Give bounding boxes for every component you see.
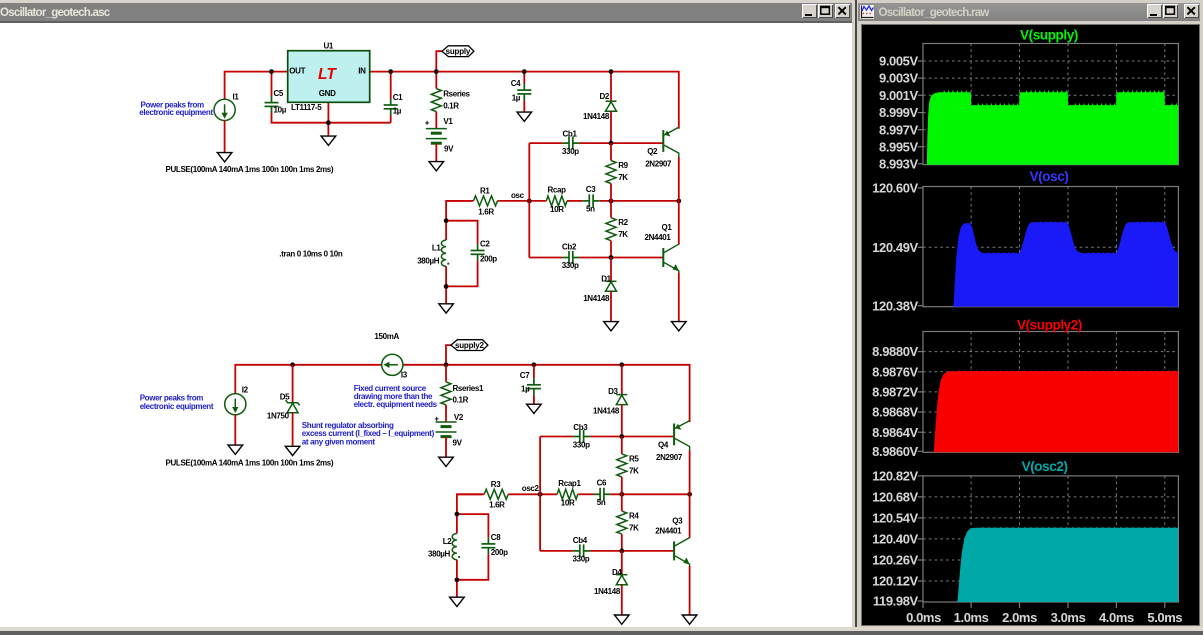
svg-text:R4: R4 (629, 511, 639, 520)
wire Q3 emitter down (689, 566, 691, 615)
wire V1 to gnd (435, 143, 437, 161)
plot pane V(osc) grid (923, 186, 1178, 306)
junction U1 gnd (326, 120, 331, 125)
svg-text:.tran 0 10ms 0 10n: .tran 0 10ms 0 10n (279, 249, 343, 258)
wire Cb3 line b (590, 435, 673, 437)
svg-text:Rseries: Rseries (443, 89, 470, 98)
minimize button (802, 4, 817, 18)
capacitor Cb3 (573, 430, 590, 443)
trace V(osc) (954, 220, 1179, 306)
capacitor C5 (265, 96, 279, 113)
wire C3 to rail (600, 200, 679, 202)
svg-text:120.54V: 120.54V (872, 510, 918, 525)
capacitor C7 (527, 378, 541, 395)
svg-text:R9: R9 (618, 161, 628, 170)
capacitor C1 (384, 98, 398, 115)
wire C7 bottom (533, 395, 535, 404)
svg-text:200p: 200p (491, 548, 508, 557)
svg-text:120.82V: 120.82V (872, 468, 918, 483)
svg-text:5n: 5n (597, 498, 606, 507)
diode D4 (616, 574, 627, 584)
wire Rcap to C3 (568, 200, 583, 202)
svg-text:V(supply): V(supply) (1020, 27, 1078, 42)
trace V(osc2) (957, 526, 1178, 601)
junction osc-rail (527, 198, 532, 203)
svg-text:C6: C6 (597, 478, 607, 487)
svg-text:1N4148: 1N4148 (594, 587, 621, 596)
svg-text:1.0ms: 1.0ms (954, 609, 989, 624)
svg-text:150mA: 150mA (374, 332, 399, 341)
wire D3 top (621, 364, 623, 394)
junction C5 top rail (269, 69, 274, 74)
junction C1 top rail (388, 69, 393, 74)
svg-text:7K: 7K (629, 466, 639, 475)
svg-text:C3: C3 (586, 185, 596, 194)
svg-text:380µH: 380µH (417, 256, 440, 265)
ground Q1 emitter (672, 321, 687, 330)
svg-text:electronic equipment: electronic equipment (139, 108, 213, 117)
svg-text:R1: R1 (480, 186, 490, 195)
svg-text:0.1R: 0.1R (443, 101, 459, 110)
inductor L2 (452, 533, 460, 559)
maximize button (1163, 4, 1178, 18)
ground V2 (439, 457, 454, 466)
diode D1 (606, 281, 617, 291)
op-amp U1 LT1117-5 body (288, 50, 370, 102)
trace V(supply2) (934, 370, 1178, 452)
svg-text:1µ: 1µ (521, 384, 530, 393)
svg-text:PULSE(100mA 140mA 1ms 100n 100: PULSE(100mA 140mA 1ms 100n 100n 1ms 2ms) (166, 458, 334, 467)
svg-text:7K: 7K (618, 173, 628, 182)
svg-text:U1: U1 (324, 41, 334, 50)
svg-text:Cb4: Cb4 (573, 536, 588, 545)
ground tank (450, 597, 465, 606)
svg-text:8.9868V: 8.9868V (872, 404, 918, 419)
window icon (859, 4, 875, 20)
junction osc2-mid (619, 492, 624, 497)
capacitor C8 (481, 537, 495, 554)
axis labels V(osc2) (872, 468, 923, 608)
svg-text:Q2: Q2 (647, 147, 658, 156)
wire D5 bottom (292, 412, 294, 446)
svg-text:C1: C1 (393, 93, 403, 102)
svg-text:D4: D4 (612, 568, 622, 577)
svg-text:I3: I3 (401, 370, 408, 379)
svg-text:electr. equipment needs: electr. equipment needs (354, 400, 438, 409)
svg-text:PULSE(100mA 140mA 1ms 100n 100: PULSE(100mA 140mA 1ms 100n 100n 1ms 2ms) (166, 165, 334, 174)
svg-text:119.98V: 119.98V (873, 593, 919, 608)
wire Q1 emitter down (678, 272, 680, 321)
wire I2 bottom (234, 414, 236, 444)
svg-text:1.6R: 1.6R (489, 500, 505, 509)
x axis labels (906, 602, 1182, 625)
resistor R4 (617, 494, 627, 551)
ground D4 (615, 615, 630, 624)
close button (835, 4, 850, 18)
svg-text:GND: GND (319, 89, 336, 98)
svg-text:8.995V: 8.995V (879, 139, 919, 154)
svg-text:2N4401: 2N4401 (645, 233, 672, 242)
svg-text:0.0ms: 0.0ms (906, 609, 941, 624)
svg-text:Cb1: Cb1 (563, 129, 578, 138)
svg-text:osc: osc (511, 191, 525, 200)
svg-text:380µH: 380µH (428, 549, 451, 558)
svg-text:I1: I1 (233, 92, 240, 101)
wire tank top (457, 494, 483, 533)
wire cross rail (539, 436, 541, 550)
junction Cb1-mid (609, 140, 614, 145)
svg-text:2.0ms: 2.0ms (1002, 609, 1037, 624)
junction Cb3-mid (619, 434, 624, 439)
svg-text:120.12V: 120.12V (872, 573, 918, 588)
wire tank top (446, 201, 472, 240)
wire osc2 mid (510, 493, 556, 495)
svg-text:5n: 5n (586, 204, 595, 213)
resistor R5 (617, 436, 627, 494)
svg-text:D5: D5 (280, 392, 290, 401)
svg-text:Q3: Q3 (672, 516, 683, 525)
wire V2 to gnd (445, 437, 447, 457)
current source I3 (382, 354, 403, 375)
junction C7 (532, 362, 537, 367)
svg-text:8.9880V: 8.9880V (872, 344, 918, 359)
junction osc-mid (609, 198, 614, 203)
junction tank bottom (455, 577, 460, 582)
ground I2 (228, 445, 243, 454)
svg-text:9V: 9V (444, 144, 454, 153)
svg-text:L2: L2 (443, 537, 453, 546)
wire I1 bottom (224, 120, 226, 152)
svg-text:7K: 7K (629, 523, 639, 532)
current source I2 (225, 393, 246, 414)
wire C4 bottom (523, 100, 525, 112)
svg-text:osc2: osc2 (522, 484, 540, 493)
svg-text:Rcap: Rcap (548, 185, 567, 194)
resistor R9 (606, 143, 616, 201)
wire osc2 line left (457, 493, 483, 495)
junction supply top rail (434, 69, 439, 74)
svg-text:V1: V1 (443, 117, 453, 126)
capacitor Cb2 (562, 251, 579, 264)
svg-text:IN: IN (358, 66, 366, 75)
wire Q4 collector rail (689, 450, 691, 538)
wire D4 top (621, 551, 623, 575)
svg-text:2N2907: 2N2907 (656, 453, 683, 462)
waveform window Oscillator_geotech.raw (855, 0, 1203, 631)
svg-text:1µ: 1µ (393, 106, 402, 115)
ground C7 (527, 404, 542, 413)
capacitor C2 (471, 244, 485, 261)
plot pane V(supply2) grid (923, 331, 1178, 452)
wire D2 to Cb1 node (610, 111, 612, 143)
svg-text:330p: 330p (562, 261, 579, 270)
svg-text:V(osc2): V(osc2) (1022, 458, 1068, 473)
voltage source V2 battery (436, 422, 457, 437)
close button (1184, 4, 1199, 18)
wire D4 bottom (621, 584, 623, 614)
svg-text:1µ: 1µ (512, 93, 521, 102)
svg-text:Q1: Q1 (662, 223, 673, 232)
wire supply2 stub (446, 345, 451, 365)
svg-text:D3: D3 (608, 387, 618, 396)
wire osc mid (499, 200, 545, 202)
svg-text:Q4: Q4 (658, 440, 669, 449)
svg-text:R5: R5 (629, 454, 639, 463)
svg-text:1N4148: 1N4148 (583, 112, 610, 121)
transistor Q2 pnp (663, 127, 679, 157)
wire Cb2 line a (529, 256, 562, 258)
svg-text:9.005V: 9.005V (879, 53, 919, 68)
svg-text:+: + (425, 118, 430, 127)
flag node supply2 (451, 339, 488, 350)
junction Cb4-mid (619, 548, 624, 553)
svg-text:2N4401: 2N4401 (655, 526, 682, 535)
voltage source V1 battery (426, 128, 447, 143)
resistor Rcap (545, 196, 568, 206)
svg-text:C7: C7 (520, 371, 530, 380)
waveform client area (862, 25, 1199, 625)
svg-text:1N750: 1N750 (267, 411, 290, 420)
wire I1 to U1 OUT (225, 71, 288, 99)
junction Cb2-mid (609, 255, 614, 260)
resistor Rseries (431, 71, 441, 128)
svg-text:supply2: supply2 (455, 341, 485, 350)
svg-text:120.40V: 120.40V (872, 531, 918, 546)
bottom edge strips (0, 627, 1203, 632)
wire D1 top (610, 257, 612, 281)
wire tank bottom (445, 266, 447, 304)
wire Cb3 line a (540, 435, 573, 437)
svg-text:330p: 330p (573, 440, 590, 449)
ground tank (439, 303, 454, 312)
capacitor Cb1 (562, 136, 579, 149)
svg-text:V(osc): V(osc) (1030, 169, 1069, 184)
wire Cb4 line a (540, 550, 573, 552)
svg-text:Rcap1: Rcap1 (558, 479, 581, 488)
wire D2 top (610, 71, 612, 101)
plot pane V(osc2) grid (923, 475, 1178, 601)
transistor Q4 pnp (674, 420, 690, 450)
junction osc2-right (687, 492, 692, 497)
junction D2 top rail (609, 69, 614, 74)
transistor Q3 npn (674, 537, 690, 566)
svg-text:8.9872V: 8.9872V (872, 384, 918, 399)
wire Cb4 line b (590, 550, 673, 552)
svg-text:4.0ms: 4.0ms (1099, 609, 1134, 624)
junction tank top (444, 218, 449, 223)
svg-text:V2: V2 (454, 413, 464, 422)
minimize button (1147, 4, 1162, 18)
svg-text:at any given moment: at any given moment (302, 437, 376, 446)
wire C4 top (523, 71, 525, 83)
svg-text:8.9876V: 8.9876V (872, 364, 918, 379)
axis labels V(osc) (872, 180, 923, 313)
svg-text:OUT: OUT (289, 66, 305, 75)
svg-text:Rseries1: Rseries1 (453, 384, 484, 393)
svg-text:10R: 10R (550, 205, 564, 214)
resistor Rcap1 (556, 489, 579, 499)
svg-text:120.68V: 120.68V (872, 489, 918, 504)
wire D1 bottom (610, 291, 612, 321)
svg-text:electronic equipment: electronic equipment (140, 402, 214, 411)
svg-text:R2: R2 (618, 218, 628, 227)
schematic canvas (0, 23, 852, 627)
plot pane V(supply) grid (923, 43, 1178, 164)
svg-text:1N4148: 1N4148 (583, 294, 610, 303)
svg-text:supply: supply (446, 47, 471, 56)
svg-text:8.993V: 8.993V (879, 156, 919, 171)
svg-text:LT1117-5: LT1117-5 (291, 103, 322, 112)
wire Cb1 line a (529, 142, 562, 144)
junction tank top (455, 511, 460, 516)
svg-text:120.26V: 120.26V (872, 552, 918, 567)
svg-text:L1: L1 (432, 243, 442, 252)
wire C8 branch bottom (457, 554, 489, 580)
wire cross rail (528, 143, 530, 257)
svg-text:V(supply2): V(supply2) (1017, 317, 1082, 332)
wire Cb2 line b (579, 256, 662, 258)
diode D2 1N4148 (606, 101, 617, 111)
ground I1 (217, 152, 232, 161)
ground D1 (604, 321, 619, 330)
diode D5 zener 1N750 (286, 400, 300, 413)
capacitor C6 (594, 487, 611, 500)
wire C5 to gnd rail (272, 113, 391, 123)
ground C4 (517, 112, 532, 121)
ground Q3 emitter (682, 615, 697, 624)
schematic window Oscillator_geotech.asc (0, 0, 856, 635)
svg-text:0.1R: 0.1R (453, 395, 469, 404)
ground V1 (429, 161, 444, 170)
svg-text:8.999V: 8.999V (879, 105, 919, 120)
current source I1 (214, 99, 235, 120)
maximize button (818, 4, 833, 18)
wire C7 top (533, 364, 535, 377)
trace V(supply) (927, 89, 1178, 164)
wire C1 branch (390, 71, 392, 98)
junction C4 top rail (522, 69, 527, 74)
svg-text:9V: 9V (453, 438, 463, 447)
junction supply2 (444, 362, 449, 367)
wire D5 top (292, 364, 294, 402)
wire C2 branch top (446, 220, 478, 243)
wire D3 to Cb3 node (621, 404, 623, 436)
svg-text:2N2907: 2N2907 (645, 159, 672, 168)
svg-text:D1: D1 (601, 274, 611, 283)
ground D5 (285, 446, 300, 455)
resistor R2 (606, 201, 616, 258)
resistor R3 (482, 489, 510, 499)
wire C1 bottom (390, 115, 392, 122)
svg-text:D2: D2 (600, 92, 610, 101)
svg-text:C4: C4 (511, 79, 521, 88)
svg-text:10R: 10R (561, 498, 575, 507)
wire C8 branch top (457, 514, 489, 537)
svg-text:1N4148: 1N4148 (593, 406, 620, 415)
wire tank bottom (456, 559, 458, 597)
capacitor C3 (583, 194, 600, 207)
junction osc-right (676, 198, 681, 203)
wire C2 branch bottom (446, 261, 478, 286)
wire C5 branch (271, 71, 273, 96)
wire C6 to rail (611, 493, 690, 495)
ground U1 (321, 136, 336, 145)
svg-text:8.9860V: 8.9860V (872, 443, 918, 458)
svg-text:9.003V: 9.003V (879, 70, 919, 85)
junction D3 (619, 362, 624, 367)
wire Cb1 line b (579, 142, 662, 144)
svg-text:Cb2: Cb2 (562, 242, 577, 251)
axis labels V(supply2) (872, 344, 923, 459)
wire I2 top rail (235, 364, 446, 393)
svg-text:10µ: 10µ (274, 105, 287, 114)
resistor Rseries1 (441, 364, 451, 421)
wire Q2 collector rail (678, 157, 680, 245)
svg-text:120.49V: 120.49V (872, 239, 918, 254)
svg-text:1.6R: 1.6R (478, 207, 494, 216)
svg-text:330p: 330p (573, 554, 590, 563)
capacitor Cb4 (573, 544, 590, 557)
wire U1 GND pin (327, 102, 329, 122)
svg-text:C2: C2 (480, 239, 490, 248)
wire U1 IN to right rail corner (370, 71, 679, 128)
svg-text:120.60V: 120.60V (872, 180, 918, 195)
svg-text:8.9864V: 8.9864V (872, 424, 918, 439)
junction tank bottom (444, 284, 449, 289)
junction D5 (290, 362, 295, 367)
inductor L1 (441, 240, 449, 266)
wire supply2 rail right (446, 364, 690, 421)
svg-text:+: + (434, 414, 439, 423)
svg-text:LT: LT (318, 66, 337, 83)
axis labels V(supply) (879, 53, 923, 171)
svg-text:C5: C5 (274, 89, 284, 98)
svg-text:9.001V: 9.001V (879, 87, 919, 102)
capacitor C4 (517, 83, 531, 100)
svg-text:8.997V: 8.997V (879, 122, 919, 137)
resistor R1 (472, 196, 500, 206)
svg-text:C8: C8 (491, 533, 501, 542)
svg-text:Cb3: Cb3 (573, 423, 588, 432)
svg-text:200p: 200p (480, 254, 497, 263)
svg-text:7K: 7K (618, 230, 628, 239)
wire U1 gnd stem (327, 122, 329, 135)
svg-text:5.0ms: 5.0ms (1147, 609, 1182, 624)
junction osc2-rail (538, 492, 543, 497)
wire Rcap1 to C6 (579, 493, 594, 495)
flag node supply (442, 45, 474, 56)
svg-text:120.38V: 120.38V (872, 298, 918, 313)
svg-text:3.0ms: 3.0ms (1051, 609, 1086, 624)
wire osc line left (446, 200, 472, 202)
svg-text:I2: I2 (242, 385, 249, 394)
wire supply stub (436, 51, 442, 71)
svg-text:330p: 330p (562, 147, 579, 156)
diode D3 1N4148 (616, 394, 627, 404)
svg-text:R3: R3 (491, 480, 501, 489)
transistor Q1 npn (663, 244, 679, 273)
